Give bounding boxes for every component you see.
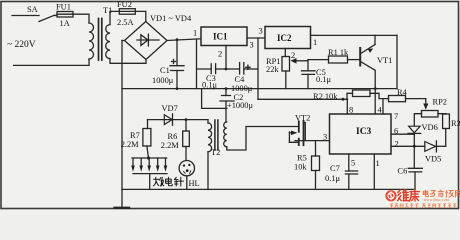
- wire to T1: [73, 14, 89, 23]
- svg-text:RP2: RP2: [433, 98, 447, 107]
- svg-text:0.1μ: 0.1μ: [202, 81, 217, 90]
- svg-text:R3: R3: [451, 119, 460, 128]
- capacitor C3: [211, 64, 215, 74]
- svg-text:R4: R4: [397, 88, 408, 97]
- bottom rail: [122, 188, 415, 190]
- svg-text:R6: R6: [168, 132, 178, 141]
- resistor R5: [315, 141, 317, 156]
- VT2: [298, 121, 300, 131]
- IC3: [330, 114, 392, 154]
- fuse FU2: [119, 9, 135, 15]
- svg-text:6: 6: [394, 127, 398, 136]
- resistor R4: [389, 96, 406, 102]
- capacitor C4: [240, 63, 244, 75]
- IC3 pin7 wire: [382, 99, 384, 114]
- wire secondary bottom to bridge bottom: [110, 59, 146, 64]
- svg-text:0.1μ: 0.1μ: [316, 75, 331, 84]
- wire FU2 to bridge top: [135, 11, 146, 21]
- wire C3 left: [197, 68, 212, 70]
- svg-text:IC3: IC3: [356, 127, 372, 137]
- bridge rectifier VD1~VD4 diamond: [125, 22, 168, 60]
- IC2: [265, 27, 311, 49]
- IC3 pin8 wire: [346, 99, 348, 114]
- svg-text:IC2: IC2: [277, 33, 292, 43]
- transformer T1 secondary: [106, 25, 110, 59]
- svg-text:C4: C4: [235, 75, 246, 84]
- svg-text:1A: 1A: [60, 19, 70, 28]
- node rail/VT1 emitter: [374, 87, 377, 90]
- logo circle: [385, 190, 396, 201]
- svg-text:C6: C6: [398, 167, 408, 176]
- svg-text:8: 8: [349, 106, 353, 115]
- line to R2/pin8: [258, 98, 348, 100]
- potentiometer RP1: [282, 57, 290, 72]
- T2 right coil bottom to VT2 gate wire: [227, 127, 299, 151]
- minus bus vertical (left): [121, 41, 123, 191]
- IC3 pin1 wire: [373, 154, 375, 189]
- node C5: [307, 60, 309, 71]
- transformer T1 core: [99, 19, 102, 61]
- svg-text:+1000μ: +1000μ: [227, 101, 253, 110]
- T2 left coil bottom lead: [207, 152, 209, 190]
- resistor R2: [347, 93, 353, 99]
- node VD6/C6: [413, 145, 416, 148]
- node C1 top: [176, 38, 179, 41]
- node R2/pin8 junction: [342, 98, 345, 101]
- wire bridge right to IC1 pin1: [167, 39, 201, 41]
- svg-text:~ 220V: ~ 220V: [7, 40, 36, 50]
- IC3 pin2 wire: [391, 145, 425, 147]
- svg-text:3: 3: [250, 41, 254, 50]
- svg-text:1: 1: [193, 29, 197, 38]
- wire secondary top to FU2: [110, 11, 119, 24]
- node comb: [147, 156, 150, 159]
- svg-text:IC1: IC1: [213, 32, 228, 42]
- mid rail: [122, 88, 397, 90]
- potentiometer RP2: [425, 99, 427, 105]
- IC3 pin6 wire: [391, 133, 414, 135]
- diode VD7: [164, 115, 172, 125]
- svg-text:VD6: VD6: [422, 123, 438, 132]
- svg-text:www.dzsc.com: www.dzsc.com: [424, 197, 450, 202]
- svg-text:R5: R5: [297, 154, 307, 163]
- node pin2/C3: [225, 68, 228, 71]
- svg-text:SA: SA: [27, 5, 38, 14]
- resistor R1: [308, 59, 329, 61]
- T2 left coil top lead: [207, 120, 209, 123]
- svg-text:1: 1: [376, 159, 380, 168]
- svg-text:FU1: FU1: [56, 3, 71, 12]
- IC2 pin1 wire: [311, 34, 398, 36]
- transformer T1 primary: [89, 23, 94, 59]
- logo hanzi: dian zi shi chang wang (orange): [423, 190, 460, 197]
- logo hanzi wei ku (red bold): [398, 190, 420, 202]
- svg-text:FU2: FU2: [117, 0, 132, 9]
- svg-text:T1: T1: [103, 6, 112, 15]
- svg-text:7: 7: [394, 112, 398, 121]
- svg-text:VT1: VT1: [377, 56, 392, 65]
- transformer T2 right coil: [224, 122, 227, 147]
- svg-text:T2: T2: [211, 148, 220, 157]
- svg-text:1000μ: 1000μ: [231, 84, 253, 93]
- comb lower bar: [133, 173, 167, 175]
- wire: 220V return: [14, 59, 89, 65]
- resistor R3: [443, 114, 450, 129]
- svg-text:2.2M: 2.2M: [121, 140, 139, 149]
- svg-text:0.1μ: 0.1μ: [325, 174, 340, 183]
- diode VD6: [409, 126, 421, 133]
- node R6 top: [185, 118, 188, 121]
- VD7 line: [148, 119, 209, 121]
- ground: [121, 190, 123, 208]
- svg-text:10k: 10k: [294, 163, 307, 172]
- svg-text:1000μ: 1000μ: [152, 76, 174, 85]
- IC1 pin2 wire: [225, 46, 227, 70]
- capacitor C1: [176, 40, 178, 66]
- hanzi label: fang dian zhen (discharge needle): [153, 177, 183, 186]
- transformer T2 core: [215, 120, 218, 150]
- svg-text:VD5: VD5: [425, 155, 441, 164]
- capacitor C6: [413, 146, 415, 168]
- svg-text:C7: C7: [330, 164, 340, 173]
- vertical from pin3 wire down: [257, 38, 259, 99]
- svg-text:3: 3: [323, 133, 327, 142]
- svg-text:HL: HL: [189, 179, 200, 188]
- IC3 pin5 wire / C7: [348, 154, 350, 171]
- transistor VT1: [359, 48, 361, 66]
- svg-text:R1 1k: R1 1k: [328, 48, 349, 57]
- bridge inner diode: [137, 39, 159, 41]
- node rail/C1: [176, 87, 179, 90]
- svg-text:2: 2: [291, 51, 295, 60]
- svg-text:VD7: VD7: [162, 104, 178, 113]
- svg-text:C1: C1: [160, 66, 170, 75]
- lamp HL: [179, 161, 194, 176]
- right loop vertical: [396, 35, 398, 88]
- svg-text:22k: 22k: [266, 65, 279, 74]
- L-wire rail to T2: [202, 89, 227, 109]
- wire bridge left to minus vertical: [122, 40, 125, 42]
- capacitor C2: [225, 89, 227, 96]
- fuse FU1: [57, 12, 73, 18]
- wire to C4: [226, 68, 239, 70]
- node rail/C2: [225, 87, 228, 90]
- wire: 220V live input: [12, 15, 39, 17]
- slogan marks (tiny hanzi row): [390, 204, 456, 208]
- IC1: [201, 27, 247, 46]
- IC3 pin4 wire: [374, 89, 376, 114]
- svg-text:1: 1: [313, 38, 317, 47]
- capacitor C5: [302, 71, 316, 75]
- svg-text:R2 10k: R2 10k: [313, 92, 338, 101]
- svg-text:5: 5: [351, 159, 355, 168]
- svg-text:2.2M: 2.2M: [161, 141, 179, 150]
- svg-text:2: 2: [395, 140, 399, 149]
- IC2 pin2 wire: [284, 49, 286, 57]
- switch SA: [39, 15, 55, 21]
- resistor R7: [147, 120, 149, 129]
- svg-text:R7: R7: [130, 131, 140, 140]
- wire IC1 pin3 to IC2 pin3: [247, 37, 265, 39]
- svg-text:2: 2: [218, 50, 222, 59]
- svg-text:2.5A: 2.5A: [117, 18, 134, 27]
- svg-text:VD1 ~ VD4: VD1 ~ VD4: [150, 14, 192, 23]
- svg-text:VT2: VT2: [295, 113, 310, 122]
- transformer T2 left coil: [208, 123, 212, 152]
- wire vertical to C3: [196, 39, 198, 89]
- svg-text:3: 3: [259, 27, 263, 36]
- discharge needles comb: [132, 157, 167, 159]
- capacitor C7: [345, 171, 357, 174]
- watermark logo: [385, 190, 460, 208]
- resistor R6: [185, 120, 187, 131]
- diode VD5: [425, 142, 436, 152]
